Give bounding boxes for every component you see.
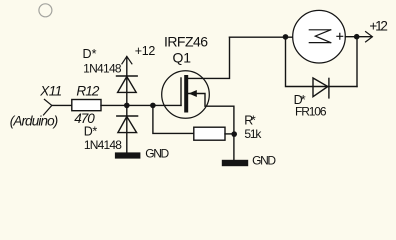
svg-text:GND: GND: [145, 146, 169, 160]
svg-text:Q1: Q1: [173, 50, 192, 66]
svg-text:D*: D*: [83, 47, 97, 61]
svg-text:+12: +12: [135, 44, 156, 58]
svg-text:1N4148: 1N4148: [83, 61, 122, 75]
svg-text:X11: X11: [39, 84, 62, 99]
svg-text:1N4148: 1N4148: [84, 138, 122, 152]
svg-text:D*: D*: [84, 124, 98, 138]
svg-text:IRFZ46: IRFZ46: [164, 33, 208, 49]
svg-text:51k: 51k: [244, 127, 262, 141]
svg-text:GND: GND: [252, 154, 276, 168]
svg-text:+12: +12: [369, 18, 388, 33]
svg-text:FR106: FR106: [295, 105, 327, 119]
svg-text:(Arduino): (Arduino): [10, 113, 59, 128]
svg-text:R*: R*: [244, 114, 256, 128]
svg-text:R12: R12: [76, 84, 99, 99]
